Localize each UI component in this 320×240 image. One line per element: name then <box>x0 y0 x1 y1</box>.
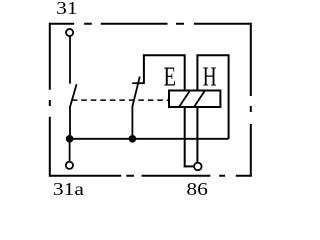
wire: E element lead down to bend <box>184 107 186 166</box>
thermal element hatched box <box>169 91 220 108</box>
mechanical linkage dashed line <box>72 99 168 101</box>
svg-text:H: H <box>203 61 217 91</box>
junction dot node 31a rail <box>66 135 74 143</box>
relay outline dash-dot border: left edge <box>49 23 51 177</box>
relay outline dash-dot border: bottom edge <box>50 175 251 177</box>
wire: S1 pivot down to node 31a <box>69 106 71 139</box>
wire: bend to terminal 86 <box>184 165 194 167</box>
switch S1 blade (open) <box>70 84 77 107</box>
terminal 86 circle <box>194 163 202 171</box>
svg-text:E: E <box>163 61 176 91</box>
wire: junction down to terminal 31a <box>69 139 71 162</box>
winding H enclosure bracket <box>197 55 228 139</box>
hatch stroke 2 <box>194 91 205 108</box>
svg-text:31: 31 <box>56 0 78 18</box>
wire: junction up to S2 pivot <box>131 106 133 139</box>
switch S2 fixed contact bar <box>132 82 145 84</box>
wire: terminal 31 stem down to switch contact <box>69 36 71 83</box>
terminal 31 circle <box>66 29 73 36</box>
svg-text:86: 86 <box>186 179 208 199</box>
svg-text:31a: 31a <box>53 179 84 199</box>
junction dot S2 branch <box>129 135 137 143</box>
relay outline dash-dot border: top edge <box>50 23 251 25</box>
hatch stroke 1 <box>179 91 190 108</box>
wire: H element lead down to terminal 86 <box>196 107 198 162</box>
terminal 31a circle <box>66 162 73 169</box>
relay outline dash-dot border: right edge <box>250 23 252 177</box>
wire: main horizontal rail from node 31a to right leg <box>70 138 229 140</box>
winding E enclosure bracket <box>144 55 185 90</box>
switch S2 blade (closed) <box>132 77 139 107</box>
